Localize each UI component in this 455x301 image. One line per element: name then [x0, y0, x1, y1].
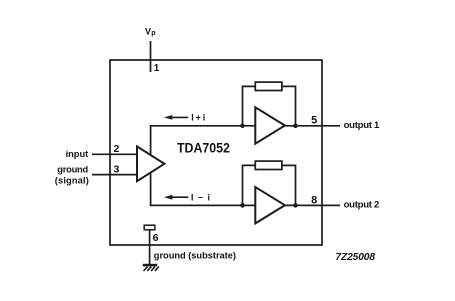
svg-text:V: V — [145, 26, 151, 36]
svg-text:p: p — [151, 30, 155, 37]
svg-text:1: 1 — [154, 63, 160, 74]
svg-text:2: 2 — [114, 143, 120, 155]
svg-text:TDA7052: TDA7052 — [177, 141, 230, 157]
svg-text:I − i: I − i — [191, 193, 210, 203]
svg-text:8: 8 — [311, 195, 317, 207]
svg-text:3: 3 — [114, 164, 120, 176]
svg-text:output 2: output 2 — [344, 200, 380, 211]
svg-text:I + i: I + i — [191, 113, 205, 123]
svg-text:6: 6 — [153, 232, 159, 244]
svg-text:input: input — [66, 149, 89, 159]
svg-text:7Z25008: 7Z25008 — [335, 252, 375, 263]
svg-text:ground: ground — [57, 165, 88, 175]
svg-text:5: 5 — [311, 115, 317, 127]
svg-text:output 1: output 1 — [344, 120, 380, 131]
svg-text:ground (substrate): ground (substrate) — [154, 251, 236, 261]
svg-text:(signal): (signal) — [55, 175, 89, 185]
